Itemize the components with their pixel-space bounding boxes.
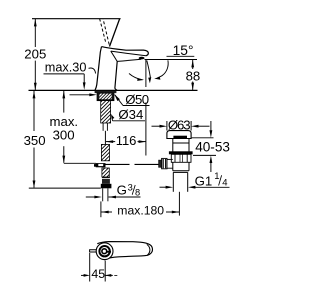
flange bottom line (166, 138, 191, 140)
body shoulder diagonal (111, 51, 117, 61)
drain body (173, 139, 189, 172)
pop-up rod segment 1 (106, 163, 130, 165)
svg-text:300: 300 (53, 128, 75, 143)
dim max.300 vertical line (62, 91, 65, 163)
dim 15deg underline (167, 55, 195, 57)
deck line (29, 89, 198, 91)
dim G3/8 text (117, 182, 141, 197)
dim G1 1/4 underline (194, 186, 230, 188)
dim 40-53 (192, 121, 216, 172)
dim Ø50 underline (123, 105, 150, 107)
aerator outlet (139, 57, 145, 60)
outlet centerline above deck (145, 60, 147, 88)
handle right cap inner contour (147, 244, 150, 255)
tailpipe centerline (178, 192, 180, 216)
dim G3/8 underline (109, 196, 141, 198)
outlet centerline extension below deck (145, 103, 147, 156)
svg-text:3: 3 (128, 182, 133, 192)
mounting washer below deck (95, 91, 117, 93)
dim 45 extension lines (84, 253, 118, 282)
svg-text:max.180: max.180 (117, 204, 164, 218)
swivel arc left arrow (129, 74, 144, 81)
svg-text:205: 205 (24, 47, 46, 62)
dim 350 vertical line (33, 91, 36, 188)
hose fitting block (102, 178, 110, 184)
svg-text:Ø34: Ø34 (118, 107, 143, 122)
body left edge (95, 47, 102, 91)
drain tailpipe (173, 172, 187, 191)
dim G1 1/4 arrows (160, 186, 196, 189)
svg-text:8: 8 (135, 187, 140, 197)
drain locknut dark band (169, 151, 193, 154)
supply pipe hatched below rod (102, 168, 109, 177)
dim Ø34 underline (113, 120, 145, 122)
svg-text:G: G (117, 183, 127, 198)
dim Ø50 left arrow (70, 93, 97, 96)
dim Ø34 leader arrow (111, 114, 114, 121)
flange seal dark band (173, 136, 187, 139)
pop-up rod left reference line (64, 162, 96, 164)
svg-text:1: 1 (214, 171, 219, 182)
body right edge (115, 61, 117, 90)
handle cap middle circle (99, 246, 109, 256)
svg-text:88: 88 (186, 68, 201, 83)
dim Ø63 extension ticks (166, 121, 168, 131)
svg-text:4: 4 (222, 178, 227, 189)
svg-text:40-53: 40-53 (195, 140, 230, 155)
svg-text:max.30: max.30 (45, 60, 87, 74)
handle lever dashed position a (100, 19, 106, 44)
handle lever solid (raised) (110, 19, 120, 47)
drain locknut body (171, 154, 191, 162)
side port cap (159, 160, 162, 167)
svg-text:Ø63: Ø63 (168, 117, 191, 132)
spout lower profile to outlet (117, 59, 141, 61)
handle cap tick (106, 251, 111, 253)
swivel arc right arrow (154, 60, 168, 80)
dim G3/8 arrows (86, 196, 116, 199)
threaded shank hatched (101, 101, 111, 123)
svg-text:max.: max. (50, 114, 79, 129)
handle lever dashed position b (103, 19, 109, 45)
lever handle top view outline (97, 242, 152, 260)
top reference line (32, 18, 121, 20)
supply pipe centerline segment (104, 131, 106, 145)
350 bottom reference line (29, 187, 101, 189)
body top edge and spout blade top (102, 47, 149, 56)
supply tube below shank (103, 123, 107, 131)
svg-text:45: 45 (91, 267, 105, 281)
svg-text:G1: G1 (195, 173, 213, 188)
dim 116 arrows (106, 140, 146, 143)
dim 45 left tail (81, 274, 85, 276)
svg-text:350: 350 (24, 133, 46, 148)
dim Ø50 leader arrow (114, 94, 123, 105)
tilted stream line with down arrow (147, 61, 152, 84)
faucet body outline (95, 47, 148, 91)
handle left nib (90, 250, 97, 252)
dim max.180 (101, 201, 179, 217)
pop-up rod segment 2 (135, 163, 159, 165)
dim max.30 underline (44, 73, 85, 75)
side port nut (162, 158, 167, 168)
handle cap outer circle (96, 243, 113, 260)
mounting nut (97, 93, 114, 101)
rod clamp fitting (94, 163, 106, 167)
max.30 hook curl (89, 68, 96, 74)
max.30 leader elbow and arrow (83, 74, 86, 90)
G3/8 end nut (101, 184, 112, 189)
handle cap inner circle (102, 249, 107, 254)
dim G1 1/4 text (195, 171, 228, 189)
dim 88 vertical line (191, 60, 194, 90)
tube below nut (103, 188, 108, 201)
dim 205 vertical line (34, 19, 37, 90)
spout blade underside (111, 51, 146, 56)
dim Ø63 (152, 125, 210, 128)
15deg reference line (145, 59, 198, 61)
drain side port tube (167, 159, 173, 168)
drain flange (167, 131, 191, 139)
svg-text:116: 116 (116, 133, 137, 148)
supply pipe lower hatched section (101, 144, 109, 160)
